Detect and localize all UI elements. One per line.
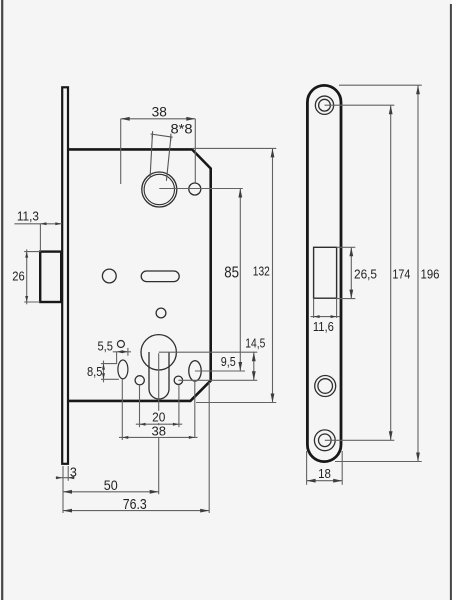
dim 26: bottom ref: [24, 301, 40, 303]
body right corner extension down: [208, 382, 210, 513]
oval centerline / 9,5 ref: [195, 370, 245, 372]
dim 8,5: top ref: [101, 363, 117, 365]
small hole right of spindle: [189, 183, 201, 195]
svg-text:132: 132: [253, 264, 270, 279]
dim 174: line: [390, 105, 392, 440]
small hole below slot: [156, 308, 166, 318]
svg-text:85: 85: [224, 264, 239, 281]
svg-text:26: 26: [12, 269, 25, 284]
dim 50: line: [63, 491, 159, 493]
dim 38 bottom label: [151, 425, 168, 437]
dim 20: line: [136, 423, 182, 425]
dim 18: left extension: [306, 451, 308, 485]
dim 5,5: line: [113, 351, 131, 353]
dim 8,5: vertical line: [103, 361, 105, 383]
right circle extension down: [178, 385, 180, 428]
keyhole extension down: [158, 353, 160, 494]
dim 20 label: [152, 411, 167, 423]
bottom screw hole: [314, 430, 335, 451]
spindle square 8*8 projection: [150, 131, 173, 181]
svg-text:26,5: 26,5: [354, 267, 377, 282]
dim 18: right extension: [341, 451, 343, 485]
small hole left of stem: [135, 376, 144, 385]
dim 11,6: right extension: [336, 298, 338, 318]
dim 11,3: extension: [39, 224, 41, 252]
svg-text:11,3: 11,3: [17, 208, 39, 223]
svg-text:18: 18: [318, 466, 331, 481]
dim 26: line: [26, 249, 28, 304]
dim 38 top: left extension: [120, 119, 122, 184]
top screw hole: [315, 96, 333, 114]
dim 38 top: line: [121, 118, 196, 120]
svg-text:8*8: 8*8: [171, 122, 193, 137]
dim 196: line: [417, 85, 419, 461]
dim 26: top ref: [24, 251, 40, 253]
body bottom edge extension: [196, 402, 276, 404]
svg-text:196: 196: [421, 266, 440, 281]
svg-text:38: 38: [152, 423, 167, 438]
top screw centerline: [325, 104, 395, 106]
svg-text:14,5: 14,5: [245, 335, 265, 350]
dim 3: line: [56, 477, 75, 479]
euro cylinder hole stem: [149, 352, 169, 399]
dim 38 top: right extension: [194, 119, 196, 183]
spindle hole (double circle): [142, 172, 177, 207]
dim 26,5: line: [350, 247, 352, 298]
capsule bottom extension: [335, 461, 422, 463]
svg-text:3: 3: [70, 466, 77, 480]
dim 5,5: connector: [116, 352, 118, 364]
8,5 oval extension down: [121, 379, 123, 440]
dim 26,5: bottom ref: [337, 298, 356, 300]
faceplate front view capsule: [307, 85, 341, 461]
left circle extension down: [139, 385, 141, 427]
faceplate (edge view): [62, 87, 68, 464]
dim 11,6: left extension: [313, 298, 315, 318]
dim 8,5: bottom ref: [101, 378, 119, 380]
dim 3: right extension: [67, 466, 69, 481]
body top edge extension: [192, 147, 276, 149]
scan left border: [1, 0, 3, 600]
latch cutout: [314, 247, 337, 298]
dim 14,5 line: [253, 352, 255, 380]
bottom screw centerline: [325, 439, 395, 441]
small hole mid-left: [102, 269, 116, 283]
spindle centerline: [159, 188, 243, 190]
right oval extension down: [194, 381, 196, 437]
svg-text:174: 174: [392, 267, 410, 282]
capsule top extension: [339, 84, 422, 86]
dim 5,5: tick: [127, 348, 129, 356]
svg-text:8,5: 8,5: [87, 365, 103, 379]
dim 38 bottom: line: [119, 436, 198, 438]
middle screw hole: [315, 376, 336, 397]
dim 18: line: [307, 480, 343, 482]
dim 11,6: line: [311, 316, 340, 318]
8,5 oval hole: [118, 360, 128, 379]
stadium slot: [141, 271, 179, 282]
svg-text:9,5: 9,5: [221, 355, 236, 369]
svg-text:76.3: 76.3: [123, 496, 147, 513]
small hole right of stem: [174, 376, 182, 384]
latch bolt: [40, 252, 61, 302]
svg-text:5,5: 5,5: [97, 340, 113, 354]
dim 11,3: line: [14, 223, 61, 225]
5,5 hole: [117, 341, 124, 348]
oval hole bottom right: [189, 361, 201, 381]
dim 26,5: top ref: [337, 246, 356, 248]
faceplate left extension down: [62, 466, 64, 513]
svg-text:50: 50: [104, 478, 118, 493]
euro cylinder hole circle: [141, 335, 176, 370]
svg-text:20: 20: [152, 410, 165, 425]
circles centerline bottom: [178, 379, 257, 381]
dim 132 line: [272, 148, 274, 402]
scan right border: [450, 4, 452, 600]
dim 76.3: line: [63, 510, 209, 512]
svg-text:11,6: 11,6: [313, 319, 334, 334]
lock body outline: [68, 149, 210, 401]
dim 85 line: [239, 189, 241, 372]
svg-text:38: 38: [152, 103, 167, 119]
cylinder centerline: [159, 351, 257, 353]
